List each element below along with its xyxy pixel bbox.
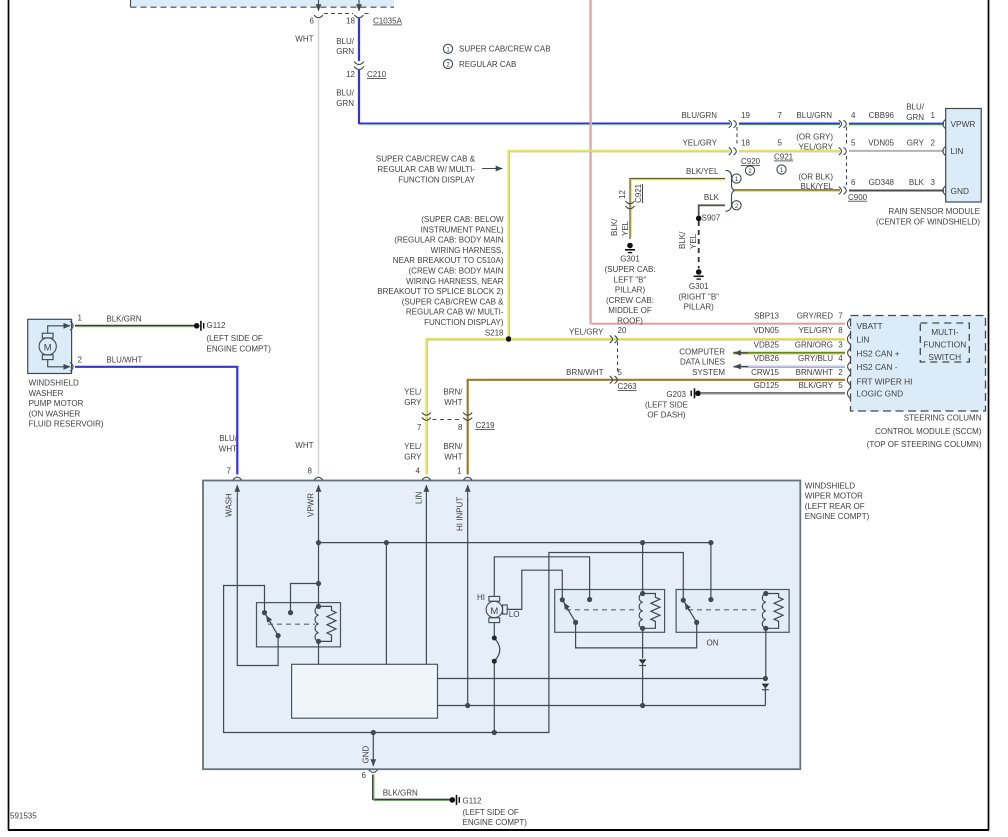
connector C1035A: [310, 14, 403, 26]
svg-text:BRN/: BRN/: [443, 442, 463, 451]
svg-text:SUPER CAB/CREW CAB &: SUPER CAB/CREW CAB &: [376, 155, 476, 164]
svg-text:YEL/: YEL/: [404, 442, 422, 451]
wire BLK GD348 (C900 to rain sensor GND pin 3): [849, 178, 944, 191]
svg-text:C210: C210: [367, 70, 387, 79]
svg-text:(CENTER OF WINDSHIELD): (CENTER OF WINDSHIELD): [876, 218, 980, 227]
svg-text:2: 2: [838, 368, 843, 377]
svg-text:YEL/GRY: YEL/GRY: [682, 139, 717, 148]
relay 1 (wash relay): [262, 604, 336, 644]
svg-text:OF DASH): OF DASH): [647, 411, 686, 420]
internal net: LIN to control module: [425, 499, 427, 664]
svg-text:CBB96: CBB96: [869, 111, 895, 120]
svg-text:G301: G301: [689, 282, 709, 291]
svg-text:GRY: GRY: [907, 139, 925, 148]
svg-text:YEL: YEL: [621, 220, 630, 236]
svg-text:7: 7: [778, 111, 783, 120]
svg-text:5: 5: [851, 139, 856, 148]
svg-text:ON: ON: [707, 639, 719, 648]
svg-text:(REGULAR CAB: BODY MAIN: (REGULAR CAB: BODY MAIN: [394, 236, 503, 245]
wire BLK/GRY GD125 (SCCM LOGIC GND to G203): [701, 381, 845, 394]
relay 2 (hi/lo relay): [560, 591, 660, 631]
svg-text:WHT: WHT: [444, 398, 462, 407]
svg-text:G301: G301: [620, 255, 640, 264]
multi-function switch: [920, 323, 969, 362]
svg-text:(OR BLK): (OR BLK): [798, 173, 833, 182]
svg-text:BLK/GRN: BLK/GRN: [383, 789, 418, 798]
svg-text:(CREW CAB:: (CREW CAB:: [606, 296, 654, 305]
svg-text:LO: LO: [509, 610, 520, 619]
svg-text:BLU/: BLU/: [219, 434, 238, 443]
svg-text:3: 3: [838, 341, 843, 350]
wire BLK (splice S907 to brace pin 2): [699, 193, 725, 218]
svg-text:4: 4: [416, 467, 421, 476]
breaker arc below motor: [492, 623, 500, 733]
wire BLK/YEL (S907 to ground G301 right B-pillar): [678, 221, 699, 269]
internal net: ground bus (relay1 NC - bottom bus - relay3 NC): [224, 553, 684, 736]
svg-text:6: 6: [310, 17, 315, 26]
legend note 1: super cab/crew cab: [443, 44, 550, 53]
svg-text:6: 6: [851, 178, 856, 187]
svg-text:GRY: GRY: [404, 398, 422, 407]
ground G112 (left side of engine compt): [194, 321, 271, 354]
svg-text:(TOP OF STEERING COLUMN): (TOP OF STEERING COLUMN): [867, 440, 982, 449]
svg-text:GRN/ORG: GRN/ORG: [795, 341, 833, 350]
svg-text:GD348: GD348: [869, 178, 895, 187]
wiper motor pin 1 HI INPUT: [456, 467, 473, 532]
control module body: [292, 664, 438, 718]
svg-text:(ON WASHER: (ON WASHER: [29, 409, 81, 418]
connector C920 / C921 (inline, rows 1-2): [729, 111, 794, 175]
svg-text:7: 7: [417, 423, 422, 432]
svg-text:2: 2: [931, 139, 936, 148]
connector C263: [610, 326, 637, 391]
svg-text:GD125: GD125: [754, 381, 780, 390]
svg-text:20: 20: [618, 326, 627, 335]
wiper motor pin 6 GND: [362, 733, 378, 781]
svg-text:BREAKOUT TO SPLICE BLOCK 2): BREAKOUT TO SPLICE BLOCK 2): [377, 287, 504, 296]
svg-text:WASH: WASH: [225, 493, 234, 517]
wire BRN/WHT CRW15 (SCCM FRT WIPER HI to C219 to wiper pin 1): [443, 368, 845, 475]
note: harness breakout locations: [377, 215, 504, 327]
ground G112 (left side of engine compt, lower): [450, 795, 528, 827]
wiper motor pin 8 VPWR: [307, 467, 324, 518]
svg-text:19: 19: [741, 111, 750, 120]
relay 2 body: [555, 590, 665, 633]
internal net: control module feed line to diode 2: [438, 676, 769, 681]
svg-text:BLK: BLK: [704, 193, 720, 202]
wire BLK/YEL (brace to C900 pin 6): [735, 173, 841, 192]
svg-text:MULTI-: MULTI-: [931, 327, 958, 337]
wire BLK/GRN (wiper GND to G112): [373, 775, 450, 801]
svg-text:CONTROL MODULE (SCCM): CONTROL MODULE (SCCM): [875, 427, 982, 436]
svg-text:S907: S907: [702, 214, 721, 223]
svg-text:BLK/GRN: BLK/GRN: [106, 315, 141, 324]
svg-text:G203: G203: [666, 390, 686, 399]
connector C219: [417, 413, 495, 433]
svg-text:WHT: WHT: [295, 441, 313, 450]
svg-text:VDB25: VDB25: [754, 341, 780, 350]
svg-text:REGULAR CAB: REGULAR CAB: [459, 60, 516, 69]
svg-text:YEL/GRY: YEL/GRY: [798, 326, 833, 335]
ground G203 (left side of dash): [645, 388, 701, 419]
svg-text:GRN: GRN: [336, 47, 354, 56]
wiper motor pin 4 LIN: [415, 467, 431, 505]
svg-text:YEL/GRY: YEL/GRY: [798, 143, 833, 152]
svg-text:3: 3: [931, 178, 936, 187]
svg-text:2: 2: [78, 356, 83, 365]
wiper motor pin 7 WASH: [225, 467, 242, 518]
svg-text:HI: HI: [477, 593, 485, 602]
svg-text:(SUPER CAB/CREW CAB &: (SUPER CAB/CREW CAB &: [402, 297, 504, 306]
svg-text:(LEFT SIDE: (LEFT SIDE: [645, 400, 688, 409]
svg-text:BLK: BLK: [909, 178, 925, 187]
svg-text:BLU/WHT: BLU/WHT: [106, 356, 142, 365]
svg-text:NEAR BREAKOUT TO C510A): NEAR BREAKOUT TO C510A): [393, 256, 504, 265]
svg-text:RAIN SENSOR MODULE: RAIN SENSOR MODULE: [888, 207, 980, 216]
wiper motor M (HI/LO): [477, 593, 519, 623]
svg-text:ROOF): ROOF): [617, 317, 643, 326]
svg-text:G112: G112: [207, 321, 227, 330]
svg-text:WINDSHIELD: WINDSHIELD: [29, 379, 79, 388]
svg-text:18: 18: [741, 139, 750, 148]
wire YEL/GRY (S218 up to C920): [508, 139, 730, 340]
svg-text:(OR GRY): (OR GRY): [796, 133, 833, 142]
brace merging wires 1 and 2: [726, 170, 742, 211]
svg-text:REGULAR CAB W/ MULTI-: REGULAR CAB W/ MULTI-: [377, 165, 475, 174]
svg-text:MIDDLE OF: MIDDLE OF: [608, 306, 652, 315]
svg-text:BRN/: BRN/: [443, 388, 463, 397]
svg-text:C921: C921: [634, 183, 643, 203]
svg-text:LEFT "B": LEFT "B": [614, 275, 647, 284]
wire BLK/GRN (washer pump pin 1 to G112): [75, 315, 194, 327]
svg-text:VDN05: VDN05: [753, 326, 779, 335]
svg-text:S218: S218: [485, 328, 504, 337]
svg-text:LIN: LIN: [415, 491, 424, 504]
svg-text:1: 1: [457, 467, 462, 476]
svg-text:PILLAR): PILLAR): [684, 303, 715, 312]
svg-text:YEL/GRY: YEL/GRY: [569, 327, 604, 336]
svg-text:STEERING COLUMN: STEERING COLUMN: [904, 414, 982, 423]
svg-text:C1035A: C1035A: [373, 17, 403, 26]
connector C210: [346, 62, 387, 80]
svg-text:C219: C219: [476, 421, 496, 430]
connector C921 (left B-pillar, vertical): [618, 183, 643, 208]
svg-text:LIN: LIN: [857, 335, 870, 345]
svg-text:FUNCTION DISPLAY): FUNCTION DISPLAY): [424, 318, 504, 327]
svg-text:BLK/YEL: BLK/YEL: [686, 167, 719, 176]
svg-text:DATA LINES: DATA LINES: [680, 358, 725, 367]
svg-text:WHT: WHT: [295, 35, 313, 44]
svg-text:12: 12: [618, 190, 627, 199]
svg-text:1: 1: [78, 314, 83, 323]
wire GRY/BLU VDB26 (SCCM HS2 CAN- to data lines): [733, 354, 845, 367]
svg-text:ENGINE COMPT): ENGINE COMPT): [207, 344, 272, 353]
svg-text:GRN: GRN: [336, 99, 354, 108]
svg-text:WIPER MOTOR: WIPER MOTOR: [805, 492, 863, 501]
svg-text:WINDSHIELD: WINDSHIELD: [805, 481, 855, 490]
wire YEL/GRY (C921 to C900): [739, 133, 840, 152]
svg-text:C900: C900: [848, 193, 868, 202]
svg-text:ENGINE COMPT): ENGINE COMPT): [805, 512, 870, 521]
windshield washer pump motor: [28, 314, 104, 429]
svg-text:YEL/: YEL/: [404, 388, 422, 397]
wire BLU/GRN (C1035A-18 to C210): [336, 18, 359, 61]
svg-text:BLU/GRN: BLU/GRN: [681, 111, 717, 120]
svg-text:SWITCH: SWITCH: [928, 352, 961, 362]
wire GRY/RED SBP13 (from top to SCCM VBATT pin 7): [590, 0, 845, 325]
svg-text:(RIGHT "B": (RIGHT "B": [678, 292, 719, 301]
relay 1 body: [257, 603, 341, 647]
ground G301 (super cab: left B-pillar): [604, 243, 655, 326]
wire BLU/GRN (C210 to connector C920): [336, 70, 730, 125]
internal net: HI INPUT to park circuit: [465, 499, 470, 708]
internal net: control module line to park diodes: [438, 703, 766, 708]
svg-text:8: 8: [838, 326, 843, 335]
svg-text:WHT: WHT: [219, 444, 237, 453]
svg-text:YEL: YEL: [689, 233, 698, 249]
svg-text:GND: GND: [362, 746, 371, 764]
svg-text:1: 1: [931, 111, 936, 120]
svg-text:HI INPUT: HI INPUT: [456, 497, 465, 531]
svg-text:G112: G112: [463, 796, 483, 805]
wire BLU/WHT (washer pump pin 2 to wiper motor pin 7): [75, 356, 238, 475]
svg-text:GND: GND: [951, 186, 969, 196]
internal net: WASH to relay 1 switch: [237, 499, 278, 666]
connector C900 (rows 1-3): [839, 111, 868, 202]
svg-text:VDB26: VDB26: [754, 354, 780, 363]
svg-text:INSTRUMENT PANEL): INSTRUMENT PANEL): [421, 225, 504, 234]
svg-text:SBP13: SBP13: [754, 312, 779, 321]
svg-text:VPWR: VPWR: [307, 493, 316, 517]
steering column control module (SCCM): [847, 316, 985, 450]
splice S218: [485, 328, 512, 342]
wire BLK/YEL (ground G301 to brace pin 1): [610, 167, 725, 239]
svg-text:M: M: [44, 343, 52, 354]
svg-text:COMPUTER: COMPUTER: [679, 347, 725, 356]
note: computer data lines system: [679, 347, 725, 377]
legend note 2: regular cab: [443, 59, 516, 68]
svg-text:4: 4: [851, 111, 856, 120]
svg-text:(SUPER CAB:: (SUPER CAB:: [604, 265, 655, 274]
svg-text:GRY: GRY: [404, 452, 422, 461]
svg-text:BLK/YEL: BLK/YEL: [801, 182, 834, 191]
rain sensor module: [876, 109, 981, 227]
relay 3 body: [676, 590, 789, 633]
svg-text:5: 5: [618, 368, 623, 377]
svg-text:FRT WIPER HI: FRT WIPER HI: [857, 376, 913, 386]
svg-text:REGULAR CAB W/ MULTI-: REGULAR CAB W/ MULTI-: [406, 308, 504, 317]
svg-text:VBATT: VBATT: [857, 321, 883, 331]
svg-text:GRN: GRN: [906, 113, 924, 122]
svg-text:BLK/: BLK/: [678, 231, 687, 249]
wire YEL/GRY VDN05 (S218 to C263 to SCCM LIN pin 8): [511, 326, 845, 340]
svg-text:HS2 CAN +: HS2 CAN +: [857, 348, 900, 358]
internal net: relay2 arm to relay3 arm: [576, 622, 697, 648]
note: super cab/crew cab & regular cab w/ multi-function display: [376, 155, 503, 185]
svg-text:(LEFT SIDE OF: (LEFT SIDE OF: [463, 808, 519, 817]
svg-text:BRN/WHT: BRN/WHT: [566, 368, 603, 377]
ground G301 (right B-pillar): [678, 269, 719, 311]
windshield wiper motor assembly box: [203, 481, 870, 770]
svg-text:FUNCTION DISPLAY: FUNCTION DISPLAY: [398, 176, 475, 185]
wire GRN/ORG VDB25 (SCCM HS2 CAN+ to data lines): [733, 341, 845, 354]
svg-text:GRY/BLU: GRY/BLU: [798, 354, 833, 363]
svg-text:LOGIC GND: LOGIC GND: [857, 389, 904, 399]
svg-text:(SUPER CAB: BELOW: (SUPER CAB: BELOW: [421, 215, 504, 224]
svg-text:8: 8: [458, 423, 463, 432]
wire WHT (C1035A-6 to wiper motor pin 8): [295, 18, 318, 475]
svg-text:BLU/: BLU/: [336, 37, 355, 46]
svg-text:LIN: LIN: [951, 146, 964, 156]
svg-text:5: 5: [838, 381, 843, 390]
wire BLU/GRN (C920 to C900): [739, 111, 840, 125]
svg-text:PILLAR): PILLAR): [615, 286, 646, 295]
splice S907: [696, 214, 721, 223]
svg-text:GRY/RED: GRY/RED: [797, 312, 834, 321]
page number: [10, 812, 37, 821]
svg-text:5: 5: [778, 139, 783, 148]
svg-text:18: 18: [346, 17, 355, 26]
svg-text:12: 12: [346, 70, 355, 79]
svg-text:CRW15: CRW15: [751, 368, 779, 377]
svg-text:BLK/: BLK/: [610, 218, 619, 236]
svg-text:7: 7: [227, 467, 232, 476]
internal net: motor LO feed to relay 2: [507, 570, 562, 609]
svg-text:C263: C263: [618, 382, 638, 391]
svg-text:591535: 591535: [10, 812, 37, 821]
svg-text:FUNCTION: FUNCTION: [923, 339, 966, 349]
svg-text:(LEFT SIDE OF: (LEFT SIDE OF: [207, 334, 263, 343]
svg-text:8: 8: [308, 467, 313, 476]
svg-text:PUMP MOTOR: PUMP MOTOR: [29, 399, 84, 408]
svg-text:BLU/: BLU/: [336, 89, 355, 98]
svg-text:(LEFT REAR OF: (LEFT REAR OF: [805, 502, 865, 511]
diode 1 (relay2 coil): [639, 628, 647, 705]
diode 2 (relay3 coil): [762, 628, 770, 705]
svg-text:BLU/: BLU/: [906, 103, 925, 112]
svg-text:FLUID RESERVOIR): FLUID RESERVOIR): [29, 420, 104, 429]
internal net: motor HI feed to relay 2: [494, 557, 592, 602]
svg-text:C920: C920: [741, 157, 761, 166]
svg-text:WHT: WHT: [444, 452, 462, 461]
wire GRY VDN05 (C900 to rain sensor LIN pin 2): [849, 139, 944, 151]
svg-text:WASHER: WASHER: [29, 389, 64, 398]
svg-text:C921: C921: [774, 153, 794, 162]
svg-text:M: M: [490, 606, 498, 617]
svg-text:WIRING HARNESS,: WIRING HARNESS,: [431, 246, 504, 255]
svg-text:SUPER CAB/CREW CAB: SUPER CAB/CREW CAB: [459, 45, 551, 54]
internal net: VPWR distribution: [291, 499, 714, 664]
svg-text:(CREW CAB: BODY MAIN: (CREW CAB: BODY MAIN: [409, 267, 504, 276]
svg-text:VPWR: VPWR: [951, 119, 976, 129]
upstream module (cut off at top): [131, 0, 395, 11]
svg-text:SYSTEM: SYSTEM: [692, 368, 725, 377]
svg-text:ENGINE COMPT): ENGINE COMPT): [463, 818, 528, 827]
svg-text:VDN05: VDN05: [868, 139, 894, 148]
svg-text:6: 6: [362, 771, 367, 780]
svg-text:BLU/GRN: BLU/GRN: [796, 111, 832, 120]
svg-text:7: 7: [838, 312, 843, 321]
relay 3 (on/off relay): [681, 591, 783, 648]
svg-text:BRN/WHT: BRN/WHT: [796, 368, 833, 377]
wire YEL/GRY (S218 to C219 to wiper motor pin 4): [404, 339, 506, 475]
svg-text:BLK/GRY: BLK/GRY: [798, 381, 833, 390]
svg-text:WIRING HARNESS, NEAR: WIRING HARNESS, NEAR: [406, 277, 504, 286]
svg-text:HS2 CAN -: HS2 CAN -: [857, 362, 898, 372]
svg-text:4: 4: [838, 354, 843, 363]
wire BLU/GRN CBB96 (C900 to rain sensor VPWR pin 1): [849, 103, 944, 125]
